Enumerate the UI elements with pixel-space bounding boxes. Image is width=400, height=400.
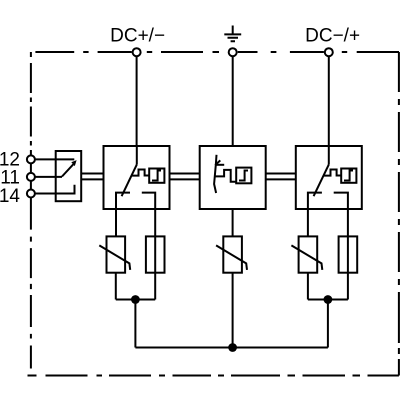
wire DC-/+ terminal to box3 — [328, 56, 330, 146]
wire node A to bus — [134, 300, 136, 348]
wire 12 to contact K1 — [35, 158, 74, 160]
wire varistor RV3 down — [307, 273, 309, 300]
box1 contact bracket — [116, 193, 155, 237]
varistor RV2 stroke — [216, 245, 247, 270]
box2 spark-gap electrode line — [214, 155, 216, 193]
wire DC+/- terminal to box1 — [136, 56, 138, 146]
box3 monitor step symbol — [344, 171, 353, 181]
node C (bus junction) — [228, 343, 237, 352]
fuse F1 body — [146, 236, 165, 272]
terminal DC-/+ — [325, 48, 333, 56]
SPD box2 outline — [200, 146, 266, 209]
varistor RV3 body — [299, 236, 318, 272]
wire varistor RV2 down to bus — [232, 273, 234, 348]
mechanical linkage box1 to box2 (double line) — [170, 174, 200, 180]
border right (dash-dot) — [398, 52, 400, 376]
box2 monitor step symbol — [239, 171, 248, 181]
terminal 11 — [27, 173, 35, 181]
varistor RV3 stroke — [291, 245, 322, 270]
wire fuse F1 down — [154, 273, 156, 300]
ground symbol — [224, 26, 241, 42]
box2 electrode stub — [216, 164, 224, 166]
contact K1 blade — [62, 164, 73, 176]
changeover contact K1 box — [56, 151, 81, 201]
box1 disconnect lead — [136, 146, 138, 165]
wire ground terminal to box2 — [232, 56, 234, 146]
SPD box3 outline — [296, 146, 362, 209]
varistor RV1 stroke — [99, 245, 130, 270]
contact K1 arrowhead — [71, 160, 76, 166]
svg-text:DC+/−: DC+/− — [110, 26, 165, 47]
bottom bus wire — [135, 347, 328, 349]
box1 trigger step line — [132, 170, 150, 176]
wire fuse F3 down — [347, 273, 349, 300]
terminal ground — [229, 48, 237, 56]
SPD box1 outline — [104, 146, 170, 209]
border bottom (dash-dot) — [28, 375, 399, 377]
svg-text:14: 14 — [0, 186, 20, 207]
wire 11 to contact K1 — [35, 176, 62, 178]
wire joining RV3/F3 — [308, 299, 348, 301]
box3 disconnect blade — [314, 165, 329, 197]
box2 trigger step line — [215, 170, 236, 182]
border left (dash-dot) — [30, 52, 32, 369]
box1 disconnect blade — [122, 165, 137, 197]
svg-text:DC−/+: DC−/+ — [305, 26, 360, 47]
mechanical linkage K1 to box1 (double line) — [81, 174, 103, 180]
node B (box3 branch junction) — [324, 295, 333, 304]
box1 monitor box — [149, 169, 164, 183]
varistor RV1 body — [107, 236, 126, 272]
box3 disconnect lead — [328, 146, 330, 165]
terminal 12 — [27, 155, 35, 163]
box3 trigger step line — [324, 170, 342, 176]
varistor RV2 body — [223, 236, 242, 272]
fuse F1 through line — [154, 236, 156, 272]
mechanical linkage box2 to box3 (double line) — [266, 174, 296, 180]
node A (box1 branch junction) — [131, 295, 140, 304]
wire varistor RV1 down — [115, 273, 117, 300]
wire 14 to contact K1 — [35, 185, 75, 194]
box3 monitor box — [341, 169, 356, 183]
border top (dash-dot) — [35, 51, 399, 53]
box1 monitor step symbol — [152, 171, 161, 181]
fuse F3 through line — [347, 236, 349, 272]
wire joining RV1/F1 — [116, 299, 155, 301]
box2 monitor box — [236, 168, 251, 184]
wire box2 to varistor RV2 — [232, 209, 234, 236]
wire node B to bus — [327, 300, 329, 348]
terminal DC+/- — [133, 48, 141, 56]
terminal 14 — [27, 190, 35, 198]
box2 electrode tick — [215, 160, 220, 165]
box3 contact bracket — [308, 193, 348, 237]
fuse F3 body — [339, 236, 358, 272]
